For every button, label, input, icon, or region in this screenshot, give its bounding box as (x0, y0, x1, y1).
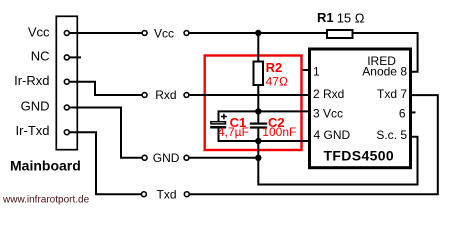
wire Vcc branch down through R2 to C2 top (257, 33, 259, 123)
node Vcc circles (142, 31, 189, 36)
wire Vcc rail to R1 and pin 8 (189, 33, 417, 72)
node Txd circles (141, 192, 189, 197)
svg-text:Ir-Rxd: Ir-Rxd (14, 73, 49, 88)
connector pin circles (64, 31, 69, 135)
svg-text:4 GND: 4 GND (314, 128, 351, 142)
connector J1 Mainboard box (56, 16, 77, 149)
resistor R2 body (254, 62, 264, 86)
svg-text:GND: GND (21, 98, 50, 113)
capacitor C1 (electrolytic) (210, 114, 227, 129)
svg-text:Ir-Txd: Ir-Txd (16, 123, 50, 138)
svg-text:Txd: Txd (157, 187, 177, 201)
capacitor C2 (250, 123, 267, 129)
wire NC stub (67, 56, 81, 58)
wire GND: pin to GND node (67, 108, 142, 158)
svg-text:Txd 7: Txd 7 (377, 87, 407, 101)
wire Ir-Rxd: pin to Rxd node (67, 82, 142, 95)
wire pin 6 stub (411, 111, 416, 113)
svg-text:Anode 8: Anode 8 (362, 65, 407, 79)
wire GND node line: C1 bottom, junction, pin 4 (219, 128, 310, 141)
svg-text:47Ω: 47Ω (266, 75, 288, 89)
svg-text:NC: NC (31, 49, 50, 64)
svg-text:R2: R2 (266, 60, 283, 75)
svg-text:6: 6 (399, 106, 406, 120)
wire Vcc: connector pin to node circle (67, 32, 142, 34)
wire C2 bottom down, GND run to pin 5 (258, 128, 417, 184)
svg-text:R1: R1 (317, 10, 334, 25)
wire Rxd line to pin 2 (189, 94, 309, 96)
wire GND line to junction (189, 157, 258, 159)
junction GND node caps (255, 138, 261, 144)
junction Vcc node (255, 108, 261, 114)
svg-text:4,7µF: 4,7µF (218, 125, 249, 139)
svg-text:15 Ω: 15 Ω (337, 10, 365, 25)
svg-text:S.c. 5: S.c. 5 (376, 128, 407, 142)
svg-text:Vcc: Vcc (28, 24, 50, 39)
svg-text:2 Rxd: 2 Rxd (313, 87, 344, 101)
node GND circles (142, 155, 189, 160)
svg-text:Mainboard: Mainboard (10, 157, 81, 173)
svg-text:1: 1 (313, 65, 320, 79)
junction GND line (255, 155, 261, 161)
svg-text:www.infrarotport.de: www.infrarotport.de (2, 194, 90, 205)
wire pin 1 stub (303, 69, 310, 71)
svg-text:TFDS4500: TFDS4500 (324, 147, 395, 163)
red highlight box around R2/C1/C2 (205, 56, 302, 151)
svg-text:GND: GND (153, 151, 180, 165)
wire Txd line to pin 7 (189, 95, 438, 194)
wire Ir-Txd: pin to Txd node (67, 132, 141, 194)
svg-text:100nF: 100nF (262, 125, 296, 139)
svg-text:Vcc: Vcc (154, 26, 174, 40)
junction Vcc/R2 (255, 30, 261, 36)
IC U1 TFDS4500 box (310, 49, 411, 168)
svg-text:3 Vcc: 3 Vcc (313, 106, 343, 120)
node Rxd circles (142, 93, 189, 98)
resistor R1 body (327, 30, 353, 38)
wire Vcc node line: C1 top, junction, pin 3 (219, 111, 310, 121)
svg-text:Rxd: Rxd (155, 88, 176, 102)
